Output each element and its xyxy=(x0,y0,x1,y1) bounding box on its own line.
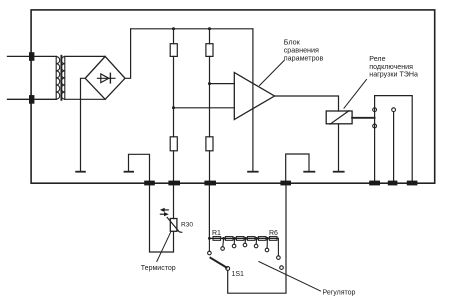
terminal pad ground link left xyxy=(144,181,155,186)
op-amp comparator U1 xyxy=(234,73,274,120)
wire thermistor loop xyxy=(150,185,174,252)
wire rail end down xyxy=(252,29,254,171)
switch 1S1 wiper xyxy=(211,258,227,268)
wire chain A middle xyxy=(173,56,175,136)
wire thermistor top xyxy=(173,185,175,218)
junction dot rail B xyxy=(208,27,211,30)
ground G1 xyxy=(75,171,86,173)
junction dots chain xyxy=(208,237,269,240)
ground G4 xyxy=(303,171,315,173)
junction dot B tap xyxy=(208,82,211,85)
wire chain B lower xyxy=(209,151,211,183)
svg-text:Термистор: Термистор xyxy=(141,265,176,272)
junction dot A tap xyxy=(172,106,175,109)
terminal pad V2 xyxy=(388,181,398,186)
thermistor arrow lower xyxy=(160,212,168,216)
wire chain B middle xyxy=(209,56,211,136)
switch tap 4 xyxy=(243,238,247,246)
svg-text:R1: R1 xyxy=(212,230,221,237)
wire bridge plus up xyxy=(125,29,131,79)
switch pivot circle xyxy=(226,267,230,271)
enclosure box xyxy=(31,10,435,183)
bridge diode lead xyxy=(97,77,115,79)
terminal pad left top xyxy=(29,52,34,61)
thermistor arrow upper xyxy=(160,208,168,212)
switch spare contact circle xyxy=(280,266,284,270)
resistor R5 xyxy=(258,237,266,241)
label leader thermistor xyxy=(157,233,171,262)
svg-text:1S1: 1S1 xyxy=(232,271,245,278)
svg-text:R30: R30 xyxy=(181,222,193,229)
switch tap 2 xyxy=(221,238,225,250)
terminal pad left bottom xyxy=(29,95,34,104)
terminal pad chain B xyxy=(204,181,216,186)
wire input bottom xyxy=(8,98,57,100)
resistor divider A upper xyxy=(170,44,177,57)
wire relay armature xyxy=(352,117,375,119)
wire relay coil to ground xyxy=(338,124,340,171)
ground G5 xyxy=(333,171,345,173)
svg-text:нагрузки ТЭНа: нагрузки ТЭНа xyxy=(369,70,418,78)
relay coil diagonal xyxy=(330,111,349,125)
transformer T1 primary winding xyxy=(56,56,60,99)
switch tap 1 xyxy=(208,238,212,254)
wire contact V2 down xyxy=(393,112,395,183)
bridge rectifier VD1 diamond xyxy=(85,56,125,99)
wire contact V1 xyxy=(374,96,376,183)
label leader regulator xyxy=(259,262,321,291)
wire secondary bottom to bridge xyxy=(65,98,105,100)
wire opamp noninverting input xyxy=(210,83,235,85)
ground G2 xyxy=(124,171,134,173)
resistor divider B lower xyxy=(206,137,213,151)
terminal pad ground link right xyxy=(280,181,291,186)
resistor divider A lower xyxy=(170,137,177,151)
svg-text:Регулятор: Регулятор xyxy=(323,290,356,297)
wire opamp output xyxy=(275,96,339,111)
wire chain A lower xyxy=(173,151,175,183)
wire switch common xyxy=(228,185,286,293)
resistor R1 xyxy=(213,237,221,241)
terminal pad chain A xyxy=(168,181,180,186)
bridge diode triangle xyxy=(101,74,109,83)
resistor R3 xyxy=(236,237,244,241)
resistor divider B upper xyxy=(206,44,213,57)
resistor R2 xyxy=(225,237,233,241)
svg-text:параметров: параметров xyxy=(284,54,324,63)
thermistor diagonal stroke xyxy=(167,218,182,233)
wire ground link right riser xyxy=(286,154,309,183)
contact circle V1 lower xyxy=(373,124,377,128)
junction dot rail A xyxy=(172,27,175,30)
terminal pad V3 xyxy=(407,181,418,186)
wire contact top bar xyxy=(375,96,413,183)
wire input top xyxy=(8,55,57,57)
label leader relay xyxy=(344,80,367,109)
relay coil K1 xyxy=(326,111,352,124)
switch tap 3 xyxy=(232,238,236,247)
transformer T1 core xyxy=(60,56,62,100)
wire bridge minus to ground xyxy=(81,78,86,171)
wire supply rail xyxy=(131,28,253,30)
switch tap 7 xyxy=(277,238,281,259)
wire chain B upper xyxy=(209,29,211,44)
wire opamp inverting input xyxy=(174,107,235,109)
transformer T1 secondary winding xyxy=(61,56,65,99)
resistor R4 xyxy=(247,237,255,241)
resistor R6 xyxy=(269,237,277,241)
ground G3 xyxy=(247,171,258,173)
wire resistor chain xyxy=(209,237,278,239)
svg-text:R6: R6 xyxy=(269,230,278,237)
thermistor R30 body xyxy=(170,219,177,232)
switch tap 5 xyxy=(254,238,258,247)
label leader comparator xyxy=(260,61,285,86)
wire ground link left riser xyxy=(129,154,150,183)
wire regulator riser xyxy=(208,185,210,238)
wire chain A upper xyxy=(173,29,175,44)
switch tap 6 xyxy=(265,238,269,251)
bridge diode cathode bar xyxy=(109,73,111,83)
contact circle V2 xyxy=(392,108,396,112)
contact circle V1 upper xyxy=(373,108,377,112)
wire secondary top to bridge xyxy=(65,55,105,57)
terminal pad V1 xyxy=(369,181,380,186)
